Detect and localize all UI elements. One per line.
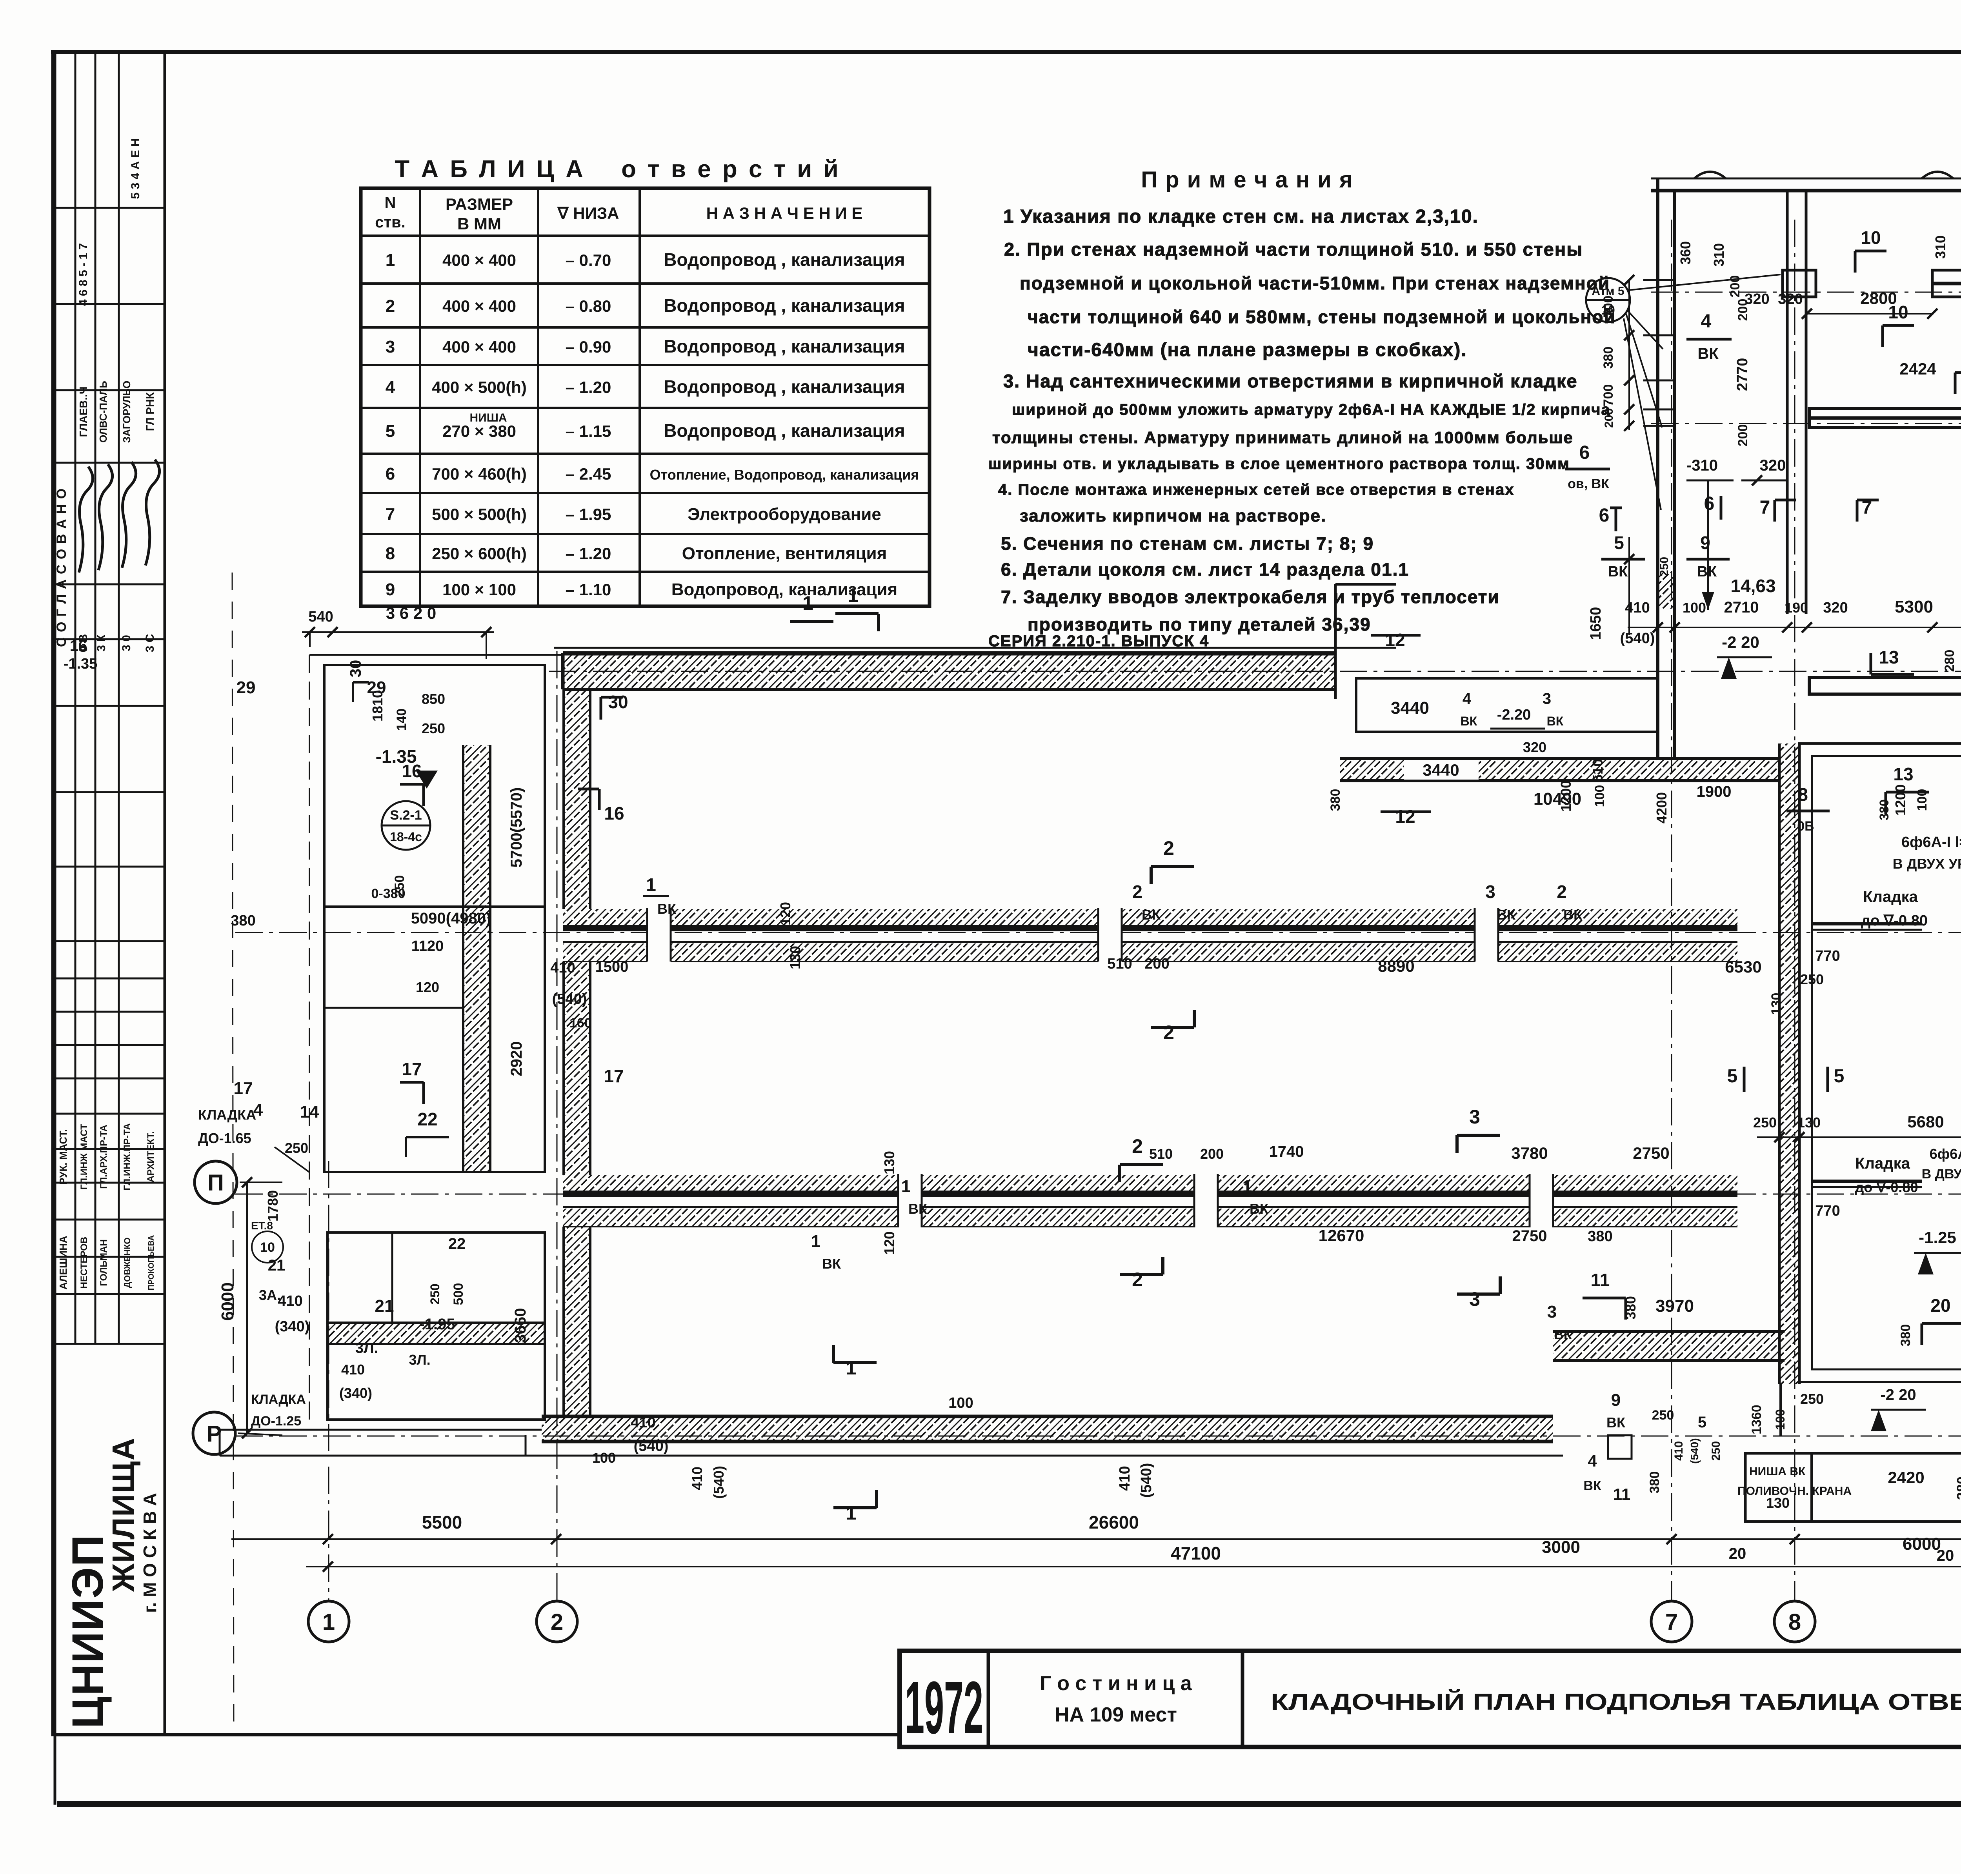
left wing west wall along axis 2 (564, 689, 590, 909)
svg-text:Электрооборудование: Электрооборудование (688, 505, 881, 524)
svg-text:4200: 4200 (1654, 792, 1670, 823)
svg-text:410: 410 (1672, 1441, 1685, 1461)
svg-text:ВК: ВК (1142, 907, 1161, 923)
svg-text:250: 250 (392, 875, 407, 898)
svg-text:П р и м е ч а н и я: П р и м е ч а н и я (1141, 167, 1353, 193)
step up to north wing at x3405 (1334, 584, 1337, 699)
svg-text:РАЗМЕР: РАЗМЕР (446, 195, 513, 213)
connector hatched band wall (1340, 758, 1779, 781)
svg-text:1: 1 (322, 1609, 335, 1635)
svg-text:ДОВЖЕНКО: ДОВЖЕНКО (122, 1238, 132, 1288)
svg-text:120: 120 (777, 902, 793, 925)
svg-text:ВК: ВК (1697, 345, 1719, 362)
svg-text:5500: 5500 (422, 1512, 462, 1532)
kladka walls in big room (1812, 922, 1922, 925)
svg-text:160: 160 (569, 1016, 592, 1031)
svg-text:6: 6 (1704, 493, 1715, 514)
svg-text:1: 1 (848, 584, 859, 606)
svg-text:1200: 1200 (1892, 784, 1908, 816)
svg-text:7. Заделку вводов электро: 7. Заделку вводов электрокабеля и труб т… (1001, 587, 1500, 607)
svg-text:1780: 1780 (265, 1190, 281, 1222)
svg-text:410: 410 (1117, 1466, 1133, 1491)
svg-text:510: 510 (1107, 956, 1132, 972)
svg-text:510: 510 (1590, 759, 1606, 782)
axis line M horizontal (549, 671, 1961, 672)
svg-text:250 × 600(h): 250 × 600(h) (432, 544, 527, 563)
svg-text:130: 130 (1797, 1114, 1821, 1131)
svg-text:20: 20 (1930, 1295, 1950, 1316)
svg-text:11: 11 (1591, 1270, 1610, 1290)
south rooms of east wing (1779, 1384, 1782, 1436)
svg-text:270 × 380: 270 × 380 (442, 422, 516, 440)
svg-text:ДО-1.65: ДО-1.65 (198, 1130, 251, 1146)
svg-text:3: 3 (1547, 1302, 1557, 1322)
svg-text:шириной до 500мм уложить ар: шириной до 500мм уложить арматуру 2ф6А-I… (1012, 401, 1611, 418)
svg-text:ГЛ РНК: ГЛ РНК (144, 392, 156, 431)
svg-text:Кладка: Кладка (1863, 888, 1918, 905)
svg-text:250: 250 (422, 720, 445, 736)
svg-text:– 1.20: – 1.20 (566, 378, 611, 396)
svg-text:2: 2 (1163, 1022, 1174, 1043)
left block inner walls (463, 745, 490, 1172)
svg-text:производить по типу дета: производить по типу деталей 36,39 (1028, 614, 1371, 634)
svg-text:6000: 6000 (218, 1282, 237, 1321)
svg-text:410: 410 (278, 1293, 302, 1309)
svg-text:С О Г Л А С О В А Н О: С О Г Л А С О В А Н О (54, 488, 69, 647)
east wing left hatched wall (1779, 743, 1799, 1384)
M wall north wing (1809, 678, 1961, 694)
svg-text:6: 6 (1599, 505, 1610, 526)
svg-text:1: 1 (846, 1358, 857, 1379)
svg-text:Кладка: Кладка (1855, 1155, 1910, 1172)
svg-text:5300: 5300 (1895, 597, 1933, 616)
svg-text:1810: 1810 (369, 690, 386, 722)
svg-text:ВК: ВК (822, 1256, 841, 1272)
svg-text:– 0.70: – 0.70 (566, 251, 611, 269)
svg-text:3. Над сантехническими отвер: 3. Над сантехническими отверстиями в кир… (1003, 371, 1578, 391)
svg-text:4: 4 (1588, 1452, 1597, 1470)
svg-text:18-4с: 18-4с (390, 830, 422, 844)
svg-text:Г о с т и н и ц а: Г о с т и н и ц а (1040, 1672, 1192, 1695)
svg-text:3: 3 (1485, 882, 1495, 902)
svg-text:2710: 2710 (1724, 599, 1759, 616)
svg-text:16: 16 (402, 761, 422, 781)
svg-text:Отопление, Водопровод, канализ: Отопление, Водопровод, канализация (650, 467, 919, 483)
svg-text:(340): (340) (339, 1385, 372, 1401)
svg-text:1900: 1900 (1697, 783, 1732, 800)
svg-text:ВК: ВК (657, 901, 677, 917)
svg-text:части-640мм (на плане размер: части-640мм (на плане размеры в скобках)… (1028, 340, 1467, 360)
svg-text:ВК: ВК (908, 1201, 928, 1217)
svg-text:3970: 3970 (1655, 1296, 1694, 1316)
svg-text:130: 130 (1769, 993, 1784, 1015)
svg-text:3 К: 3 К (95, 634, 108, 652)
svg-text:ПРОКОПЬЕВА: ПРОКОПЬЕВА (147, 1235, 156, 1291)
svg-text:ВК: ВК (1697, 564, 1717, 580)
svg-text:НИША: НИША (469, 411, 507, 424)
svg-text:250: 250 (1800, 971, 1824, 987)
bottom outer thin line (220, 1455, 1563, 1457)
svg-text:410: 410 (341, 1362, 365, 1378)
svg-text:Водопровод , канализация: Водопровод , канализация (664, 420, 905, 441)
left wing upper boundary thin line (554, 647, 1396, 649)
svg-text:410: 410 (631, 1414, 655, 1431)
svg-text:4: 4 (1463, 690, 1472, 707)
svg-text:2: 2 (551, 1609, 563, 1635)
svg-text:500 × 500(h): 500 × 500(h) (432, 505, 527, 524)
svg-text:320: 320 (1778, 291, 1803, 307)
svg-text:– 0.80: – 0.80 (566, 297, 611, 315)
svg-text:6000: 6000 (1903, 1534, 1941, 1554)
svg-text:– 2.45: – 2.45 (566, 465, 611, 483)
svg-text:3Л.: 3Л. (355, 1340, 378, 1356)
svg-text:3000: 3000 (1542, 1538, 1580, 1557)
svg-text:ЖИЛИЩА: ЖИЛИЩА (106, 1437, 141, 1592)
svg-text:– 1.10: – 1.10 (566, 580, 611, 599)
svg-text:ПОЛИВОЧН. КРАНА: ПОЛИВОЧН. КРАНА (1737, 1485, 1852, 1498)
svg-text:4: 4 (253, 1100, 263, 1120)
svg-text:АЛЕШИНА: АЛЕШИНА (57, 1236, 69, 1289)
svg-text:10490: 10490 (1534, 789, 1581, 809)
svg-text:320: 320 (1523, 739, 1546, 755)
svg-text:АРХИТЕКТ.: АРХИТЕКТ. (146, 1131, 156, 1182)
svg-text:6ф6А-I l=4000: 6ф6А-I l=4000 (1901, 834, 1961, 851)
svg-text:380: 380 (1623, 1296, 1639, 1320)
svg-text:8: 8 (386, 544, 395, 563)
svg-text:380: 380 (1877, 799, 1891, 820)
svg-text:20: 20 (1729, 1545, 1746, 1562)
axis line L horizontal (1651, 423, 1961, 424)
svg-text:250: 250 (428, 1283, 442, 1304)
svg-text:-1.95: -1.95 (419, 1316, 455, 1333)
svg-text:ширины отв. и укладывать в: ширины отв. и укладывать в слое цементно… (988, 455, 1570, 473)
svg-text:850: 850 (422, 691, 445, 707)
svg-text:200: 200 (1200, 1146, 1224, 1162)
svg-text:ГОЛЬМАН: ГОЛЬМАН (98, 1239, 109, 1286)
svg-text:Водопровод, канализация: Водопровод, канализация (671, 580, 897, 599)
svg-text:6. Детали цоколя см. лис: 6. Детали цоколя см. лист 14 раздела 01.… (1001, 559, 1409, 580)
svg-text:400 × 400: 400 × 400 (442, 251, 516, 269)
svg-text:S.2-1: S.2-1 (390, 808, 422, 823)
axis circles left P R (195, 1161, 237, 1203)
svg-text:– 0.90: – 0.90 (566, 338, 611, 356)
svg-text:ств.: ств. (375, 214, 406, 231)
svg-text:200: 200 (1144, 956, 1169, 972)
svg-text:100: 100 (1683, 600, 1706, 616)
svg-text:ГЛ.ИНЖ.ПР-ТА: ГЛ.ИНЖ.ПР-ТА (122, 1123, 133, 1190)
svg-text:– 1.95: – 1.95 (566, 505, 611, 524)
svg-text:380: 380 (1588, 1228, 1612, 1245)
svg-text:ГЛАЕВ..Ч: ГЛАЕВ..Ч (77, 386, 89, 437)
bottom total chain 47100 (306, 1566, 1961, 1567)
svg-text:16: 16 (70, 637, 87, 654)
big room outline (1799, 743, 1961, 1382)
svg-text:3440: 3440 (1423, 761, 1459, 779)
svg-text:30: 30 (347, 660, 364, 678)
svg-text:140: 140 (394, 709, 409, 731)
svg-text:(540): (540) (1138, 1463, 1155, 1498)
svg-text:2: 2 (1557, 882, 1567, 902)
svg-text:ВК: ВК (1461, 714, 1477, 728)
svg-text:КЛАДКА: КЛАДКА (198, 1107, 256, 1123)
svg-text:12: 12 (1395, 806, 1415, 827)
svg-text:подземной и цокольной части-5: подземной и цокольной части-510мм. При с… (1020, 273, 1610, 293)
axis line N horizontal (235, 932, 1961, 933)
svg-text:НЕСТЕРОВ: НЕСТЕРОВ (79, 1237, 89, 1289)
svg-text:13: 13 (1879, 647, 1899, 667)
svg-text:6: 6 (1579, 442, 1590, 463)
svg-text:120: 120 (416, 979, 439, 995)
svg-text:ЕТ.8: ЕТ.8 (251, 1220, 273, 1232)
svg-text:2: 2 (1132, 882, 1142, 902)
svg-text:ВК: ВК (1547, 714, 1564, 728)
svg-text:5 3 4 А Е Н: 5 3 4 А Е Н (129, 138, 142, 199)
svg-text:3: 3 (386, 337, 395, 356)
svg-text:320: 320 (1760, 457, 1786, 474)
svg-text:ВК: ВК (1606, 1414, 1626, 1431)
svg-text:400 × 400: 400 × 400 (442, 297, 516, 315)
svg-text:5090(4980): 5090(4980) (411, 910, 491, 927)
vertical dim chain left of north wing wall (1628, 280, 1630, 430)
bottom dimension chain 5500 26600 3000 6000 6000 (231, 1538, 1961, 1540)
svg-text:5: 5 (386, 422, 395, 441)
svg-text:250: 250 (1710, 1441, 1723, 1461)
svg-text:130: 130 (881, 1151, 897, 1174)
svg-text:1360: 1360 (1749, 1405, 1764, 1434)
svg-text:ЗАГОРУЛЬО: ЗАГОРУЛЬО (121, 381, 133, 443)
svg-text:13: 13 (1893, 764, 1913, 784)
svg-text:29: 29 (236, 678, 256, 697)
svg-text:1500: 1500 (595, 959, 629, 975)
svg-text:Водопровод , канализация: Водопровод , канализация (664, 376, 905, 397)
svg-text:410: 410 (550, 960, 575, 976)
bottom axis circles (308, 1601, 349, 1642)
svg-text:14,63: 14,63 (1730, 576, 1775, 596)
3970 room bottom left of east wing (1553, 1331, 1785, 1361)
svg-text:6: 6 (386, 464, 395, 484)
svg-text:14: 14 (300, 1102, 319, 1122)
svg-text:5: 5 (1727, 1066, 1738, 1087)
north wing top boundary (1651, 178, 1961, 180)
svg-text:Н А З Н А Ч Е Н И Е: Н А З Н А Ч Е Н И Е (706, 204, 863, 222)
svg-text:ВК: ВК (1554, 1327, 1572, 1342)
svg-text:(540): (540) (1620, 630, 1655, 647)
svg-text:8: 8 (1788, 1609, 1801, 1635)
left block outer boundary (324, 665, 545, 1172)
left block outer thin offset (309, 655, 310, 1420)
svg-text:250: 250 (285, 1140, 308, 1156)
svg-text:1650: 1650 (1588, 607, 1604, 640)
ATM circle with leaders (1586, 278, 1630, 322)
svg-text:7: 7 (386, 505, 395, 524)
svg-text:1740: 1740 (1269, 1143, 1304, 1160)
wall axis R bottom hatched (542, 1416, 1553, 1442)
svg-text:1972: 1972 (905, 1666, 983, 1749)
svg-text:2: 2 (1132, 1269, 1143, 1291)
svg-text:17: 17 (234, 1079, 253, 1098)
svg-text:В ДВУХ УРОВНЯХ: В ДВУХ УРОВНЯХ (1922, 1167, 1961, 1182)
svg-text:7: 7 (1665, 1609, 1678, 1635)
svg-text:г. М О С К В А: г. М О С К В А (140, 1493, 160, 1613)
svg-text:250: 250 (1753, 1114, 1777, 1131)
svg-text:1: 1 (901, 1177, 911, 1196)
svg-text:4: 4 (1701, 311, 1712, 332)
svg-text:части толщиной 640 и 580мм,: части толщиной 640 и 580мм, стены подзем… (1028, 307, 1616, 327)
svg-text:N: N (385, 194, 396, 211)
title block (900, 1651, 1961, 1747)
axis line K horizontal (1651, 292, 1961, 293)
left wing top wall (axis M) hatched (563, 654, 1335, 689)
svg-text:ЦНИИЭП: ЦНИИЭП (63, 1534, 112, 1729)
axis line P horizontal (235, 1194, 1961, 1195)
svg-text:-1.25: -1.25 (1919, 1228, 1956, 1247)
svg-text:ДО-1.25: ДО-1.25 (251, 1414, 301, 1429)
svg-text:3: 3 (1469, 1288, 1480, 1310)
svg-text:2. При стенах надземной час: 2. При стенах надземной части толщиной 5… (1004, 239, 1583, 260)
page frame bottom thin line (55, 1733, 900, 1736)
svg-text:8890: 8890 (1378, 957, 1414, 975)
svg-text:190: 190 (1785, 600, 1808, 616)
svg-text:2: 2 (386, 296, 395, 316)
svg-text:В ММ: В ММ (457, 215, 501, 233)
svg-text:– 1.15: – 1.15 (566, 422, 611, 440)
svg-text:200: 200 (1735, 299, 1750, 321)
svg-text:400 × 400: 400 × 400 (442, 338, 516, 356)
svg-text:1: 1 (386, 251, 395, 270)
svg-text:Водопровод , канализация: Водопровод , канализация (664, 336, 905, 356)
north wing vertical wall x4560 (1786, 191, 1789, 614)
svg-text:Водопровод , канализация: Водопровод , канализация (664, 249, 905, 270)
left stamp column grid (53, 52, 165, 1735)
wall axis N hatched band (563, 909, 1737, 925)
svg-text:100 × 100: 100 × 100 (442, 580, 516, 599)
svg-text:770: 770 (1815, 1203, 1840, 1219)
svg-text:2: 2 (1163, 837, 1174, 859)
svg-text:12: 12 (1385, 630, 1405, 650)
svg-text:10: 10 (1888, 302, 1908, 322)
svg-text:200: 200 (1735, 424, 1750, 447)
left lower block (327, 1232, 545, 1420)
svg-text:Водопровод , канализация: Водопровод , канализация (664, 295, 905, 316)
K axis piers (1783, 270, 1816, 297)
svg-text:380: 380 (1954, 1476, 1961, 1500)
svg-text:100: 100 (1773, 1409, 1787, 1430)
svg-text:3 0: 3 0 (120, 635, 133, 651)
svg-text:20: 20 (1937, 1547, 1954, 1564)
svg-text:47100: 47100 (1171, 1543, 1221, 1563)
connector room 3440 outline (1356, 678, 1658, 732)
page frame top border (51, 50, 1961, 54)
svg-text:-2.20: -2.20 (1497, 707, 1531, 723)
axis line R horizontal (235, 1436, 1961, 1437)
svg-text:ВК: ВК (1608, 564, 1628, 580)
svg-text:заложить кирпичом на рас: заложить кирпичом на растворе. (1020, 506, 1326, 525)
svg-text:10: 10 (1861, 227, 1881, 248)
svg-text:РУК. МАСТ.: РУК. МАСТ. (57, 1129, 69, 1185)
svg-text:3: 3 (1469, 1106, 1480, 1128)
circled mark S2-1/18-4 (382, 801, 430, 850)
svg-text:П: П (207, 1170, 224, 1196)
svg-text:ГЛ.ИНЖ МАСТ: ГЛ.ИНЖ МАСТ (79, 1124, 89, 1190)
svg-text:2: 2 (1132, 1135, 1143, 1157)
svg-text:1: 1 (802, 592, 813, 614)
svg-text:Т А Б Л И Ц А о т в е р с т и: Т А Б Л И Ц А о т в е р с т и й (395, 156, 841, 183)
openings in N wall (647, 906, 671, 964)
svg-text:– 1.20: – 1.20 (566, 544, 611, 563)
svg-text:510: 510 (1149, 1146, 1173, 1162)
svg-text:до ∇-0.80: до ∇-0.80 (1861, 913, 1928, 929)
svg-text:5: 5 (1614, 533, 1624, 553)
svg-text:(540): (540) (711, 1466, 727, 1499)
svg-text:3 С: 3 С (144, 634, 156, 653)
svg-text:5680: 5680 (1907, 1113, 1944, 1131)
svg-text:380: 380 (1601, 347, 1616, 369)
svg-text:10: 10 (260, 1240, 275, 1255)
svg-text:5700(5570): 5700(5570) (508, 787, 525, 868)
svg-text:2770: 2770 (1734, 358, 1751, 391)
svg-text:280: 280 (1942, 650, 1957, 672)
svg-text:2420: 2420 (1888, 1468, 1924, 1487)
svg-text:ВК: ВК (1497, 907, 1516, 923)
svg-text:ГЛ.АРХ.ПР-ТА: ГЛ.АРХ.ПР-ТА (98, 1125, 109, 1189)
svg-text:1: 1 (811, 1232, 820, 1251)
svg-text:7: 7 (1760, 497, 1770, 518)
svg-text:380: 380 (1898, 1324, 1913, 1347)
svg-text:Отопление, вентиляция: Отопление, вентиляция (682, 544, 887, 563)
svg-text:2750: 2750 (1633, 1144, 1669, 1162)
svg-text:22: 22 (417, 1109, 437, 1129)
svg-text:-1.35: -1.35 (64, 656, 98, 672)
openings table grid (361, 188, 930, 606)
svg-text:6ф6А-I l=4000: 6ф6А-I l=4000 (1930, 1146, 1961, 1162)
svg-text:(540): (540) (552, 991, 587, 1007)
svg-text:(540): (540) (634, 1438, 669, 1454)
svg-text:9: 9 (1700, 533, 1710, 553)
svg-text:21: 21 (375, 1296, 394, 1316)
svg-text:3440: 3440 (1391, 698, 1429, 718)
svg-text:30: 30 (608, 692, 628, 712)
svg-text:1 Указания по кладке стен: 1 Указания по кладке стен см. на листах … (1003, 206, 1479, 227)
svg-text:380: 380 (1647, 1471, 1662, 1494)
svg-text:-310: -310 (1686, 457, 1718, 474)
svg-text:ВК: ВК (1583, 1478, 1601, 1493)
svg-text:5: 5 (1834, 1066, 1845, 1087)
svg-text:(340): (340) (275, 1318, 310, 1335)
svg-text:3 6 2 0: 3 6 2 0 (386, 604, 436, 622)
svg-text:250: 250 (1652, 1408, 1674, 1423)
L axis wall (1809, 409, 1961, 427)
dim chain between N-P mid (1757, 1136, 1961, 1138)
svg-text:1120: 1120 (411, 938, 444, 954)
svg-text:380: 380 (231, 913, 255, 929)
signatures scribbles (79, 467, 93, 573)
svg-text:2920: 2920 (508, 1042, 525, 1076)
svg-text:2750: 2750 (1512, 1227, 1547, 1245)
svg-text:4 6 8 5 - 1 7: 4 6 8 5 - 1 7 (77, 243, 90, 306)
svg-text:700: 700 (1601, 296, 1616, 318)
svg-text:770: 770 (1815, 948, 1840, 964)
svg-text:5. Сечения по стенам см: 5. Сечения по стенам см. листы 7; 8; 9 (1001, 533, 1374, 554)
openings in P wall (898, 1172, 922, 1230)
svg-text:17: 17 (402, 1059, 422, 1079)
svg-text:16: 16 (604, 803, 624, 823)
svg-text:6530: 6530 (1725, 958, 1761, 976)
svg-text:3: 3 (1543, 690, 1551, 707)
svg-text:360: 360 (1677, 241, 1694, 265)
svg-text:100: 100 (592, 1450, 616, 1466)
vertical axis lines (328, 1467, 329, 1602)
svg-text:9: 9 (1611, 1391, 1621, 1410)
